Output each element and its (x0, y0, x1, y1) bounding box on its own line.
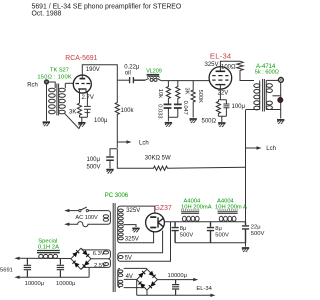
wire bridge1 top to 6.3V (81, 248, 108, 250)
wire primary bottom to B+ (246, 109, 260, 111)
svg-text:EL-34: EL-34 (196, 286, 212, 292)
svg-text:0.047: 0.047 (182, 101, 188, 115)
svg-text:10H 200m A: 10H 200m A (215, 204, 247, 210)
wire DC- rail (17, 276, 89, 278)
svg-text:8μ: 8μ (180, 226, 187, 232)
diodes bridge1 (72, 250, 79, 257)
svg-text:8μ: 8μ (215, 226, 222, 232)
capacitor 0.047 (174, 104, 182, 118)
terminal output hot (279, 78, 284, 83)
resistor 500K grid (191, 81, 195, 118)
choke L1 A4004 (181, 210, 199, 221)
wire secondary top tap (266, 79, 278, 81)
arrow Lch left (127, 140, 132, 143)
wire 4V mid to bridge2 left (124, 278, 137, 280)
wire bridge1 bottom to 2.5V (81, 267, 108, 269)
resistor 500ohm (216, 100, 220, 117)
svg-text:10000μ: 10000μ (56, 281, 75, 287)
resistor 100ohm (237, 61, 254, 80)
wire 325V top to GZ37 (120, 206, 155, 213)
wire input down (46, 84, 48, 121)
svg-text:Lch: Lch (139, 140, 149, 146)
wire caps to ground (168, 117, 177, 121)
capacitor 22u (175, 222, 249, 247)
svg-text:22μ: 22μ (251, 225, 261, 231)
transformer T3 winding 6.3V (108, 250, 110, 259)
svg-text:190V: 190V (86, 67, 100, 73)
transformer T3 secondary 325V loop (118, 206, 120, 243)
svg-text:500K: 500K (197, 90, 203, 103)
arrow DC+ EL34 (193, 278, 198, 281)
svg-text:TK S27: TK S27 (50, 68, 69, 74)
transformer T2 primary (259, 81, 261, 110)
tube V2 EL-34 (209, 67, 232, 90)
choke L2 A4004 (218, 210, 238, 221)
arrow AC hot (64, 209, 69, 212)
resistor 10k (166, 81, 170, 104)
arrow DC- EL34 (210, 294, 215, 297)
transformer T2 core (262, 79, 264, 112)
arrow AC neutral (64, 223, 69, 226)
ground riaa (165, 123, 172, 127)
svg-text:500Ω: 500Ω (202, 118, 217, 124)
svg-text:10k: 10k (157, 89, 163, 98)
svg-text:RCA-5691: RCA-5691 (65, 55, 97, 62)
resistor 30K 5W (117, 149, 245, 171)
capacitor 100u 500V decoupling (106, 149, 117, 169)
capacitor 100u el34 (218, 100, 229, 122)
choke L3 special core (37, 251, 60, 253)
wire AC neutral + fuse (67, 222, 109, 227)
ground el34 cathode (218, 123, 225, 127)
svg-text:100k: 100k (121, 108, 135, 114)
capacitor 10000u first (24, 258, 31, 277)
wire to coupling cap (117, 79, 129, 81)
wire DC+ bus (17, 257, 71, 259)
wire secondary mid tap (272, 95, 280, 97)
transformer T3 winding 5V loop (118, 253, 120, 261)
svg-text:500V: 500V (251, 231, 265, 237)
svg-text:VL209: VL209 (146, 68, 162, 74)
tube V1 RCA-5691 (73, 75, 91, 93)
transformer T3 core (112, 203, 114, 292)
wire bridge2 left corner down to rail (137, 280, 212, 296)
svg-text:5V: 5V (125, 255, 132, 261)
svg-text:10000μ: 10000μ (25, 281, 44, 287)
wire 4V top to bridge2 (124, 267, 147, 270)
svg-text:100Ω: 100Ω (221, 65, 236, 71)
svg-text:AC 100V: AC 100V (75, 215, 98, 221)
ground 500K (190, 119, 197, 123)
wire B+ drop from OPT (245, 110, 247, 222)
capacitor 8u first (172, 222, 179, 243)
ground cathode (78, 123, 85, 127)
svg-text:Oct. 1988: Oct. 1988 (32, 10, 62, 17)
wire 4V bottom to bridge2 bottom (124, 288, 147, 296)
svg-text:100μ: 100μ (94, 118, 108, 124)
wire ground rail PSU (175, 243, 245, 247)
wire Lch tap left (117, 141, 127, 143)
resistor 3K (77, 103, 81, 117)
wire bridge1 right to mid tap (91, 258, 108, 260)
arrow Lch right (257, 146, 262, 149)
transformer T1 secondary (64, 83, 66, 88)
wire plate up and right (82, 65, 117, 81)
terminal output cold (278, 98, 283, 103)
svg-text:Rch: Rch (27, 82, 38, 88)
transformer T1 TKS27 primary (49, 82, 56, 88)
svg-text:100μ: 100μ (87, 157, 101, 163)
resistor 3K riaa (176, 81, 180, 104)
volume VL209 (145, 75, 209, 82)
svg-text:500V: 500V (87, 164, 101, 170)
svg-text:150Ω : 100K: 150Ω : 100K (37, 74, 72, 80)
capacitor 100u cathode (79, 106, 91, 128)
capacitor 10000u EL34 (172, 280, 179, 296)
input terminal (45, 80, 49, 84)
transformer T3 winding 4V loop (118, 268, 120, 287)
ground PSU (242, 248, 249, 252)
diodes bridge2 (138, 271, 145, 278)
svg-text:10000μ: 10000μ (168, 273, 187, 279)
capacitor 0.033 (164, 104, 172, 118)
svg-text:2.5V: 2.5V (94, 263, 106, 269)
ground input (43, 122, 50, 126)
wire secondary bottom tap (266, 83, 281, 119)
ground output (277, 120, 284, 124)
wire grid (65, 82, 73, 84)
wire 5V bottom riser (120, 222, 171, 261)
wire cathode legs (80, 89, 88, 106)
svg-text:0.033: 0.033 (156, 104, 162, 118)
svg-text:500V: 500V (180, 232, 194, 238)
svg-text:500V: 500V (215, 232, 229, 238)
svg-text:GZ37: GZ37 (155, 205, 172, 212)
svg-text:5k : 600Ω: 5k : 600Ω (255, 70, 279, 76)
svg-text:6.3V: 6.3V (93, 251, 105, 257)
wire Lch tap right (246, 147, 258, 149)
wire 325V bottom to GZ37 (120, 232, 154, 243)
wire plate up (220, 61, 240, 71)
capacitor 10000u second (57, 259, 64, 278)
wire AC hot (67, 210, 79, 212)
wire rail to 2.5V wire (88, 267, 90, 277)
svg-text:3K: 3K (184, 88, 190, 95)
svg-text:Special: Special (38, 238, 57, 244)
svg-text:22V: 22V (218, 90, 229, 96)
ground center tap (132, 228, 139, 232)
wire B+ out (164, 221, 245, 223)
choke L3 special coil (39, 254, 43, 258)
wire secondary bottom to cathode ground (65, 113, 80, 128)
resistor 100k plate load (115, 80, 119, 148)
svg-text:100μ: 100μ (232, 104, 246, 110)
svg-text:30KΩ 5W: 30KΩ 5W (145, 156, 171, 162)
svg-text:325V: 325V (125, 237, 139, 243)
transformer T3 primary (108, 211, 110, 225)
svg-text:oil: oil (125, 70, 131, 76)
bridge B1 (71, 248, 91, 269)
capacitor 8u second (207, 222, 214, 243)
wire DC+ EL34 (157, 279, 194, 281)
wire signal bus (161, 80, 210, 82)
svg-text:5691: 5691 (0, 268, 13, 274)
svg-text:10H 200mA: 10H 200mA (181, 204, 212, 210)
tube V3 GZ37 (146, 213, 165, 232)
svg-text:PC 3006: PC 3006 (105, 193, 129, 199)
transformer T2 secondary (265, 80, 267, 109)
svg-text:Lch: Lch (266, 146, 276, 152)
switch SW (79, 210, 81, 212)
capacitor 0.22u oil (130, 77, 145, 83)
transformer T3 winding 2.5V (108, 259, 110, 268)
wire cathode (218, 85, 226, 100)
bridge B2 (137, 269, 158, 290)
svg-text:EL-34: EL-34 (210, 52, 232, 61)
wire 5V top riser (120, 231, 163, 253)
arrow DC+ to 5691 (14, 257, 19, 260)
arrow DC- to 5691 (14, 276, 19, 279)
svg-text:325V: 325V (126, 208, 140, 214)
wire center tap (123, 225, 136, 227)
transformer T1 core (56, 84, 58, 116)
ground decoupling cap (106, 170, 113, 174)
svg-text:3K: 3K (69, 110, 76, 116)
svg-text:0.1H 2A: 0.1H 2A (38, 245, 59, 251)
